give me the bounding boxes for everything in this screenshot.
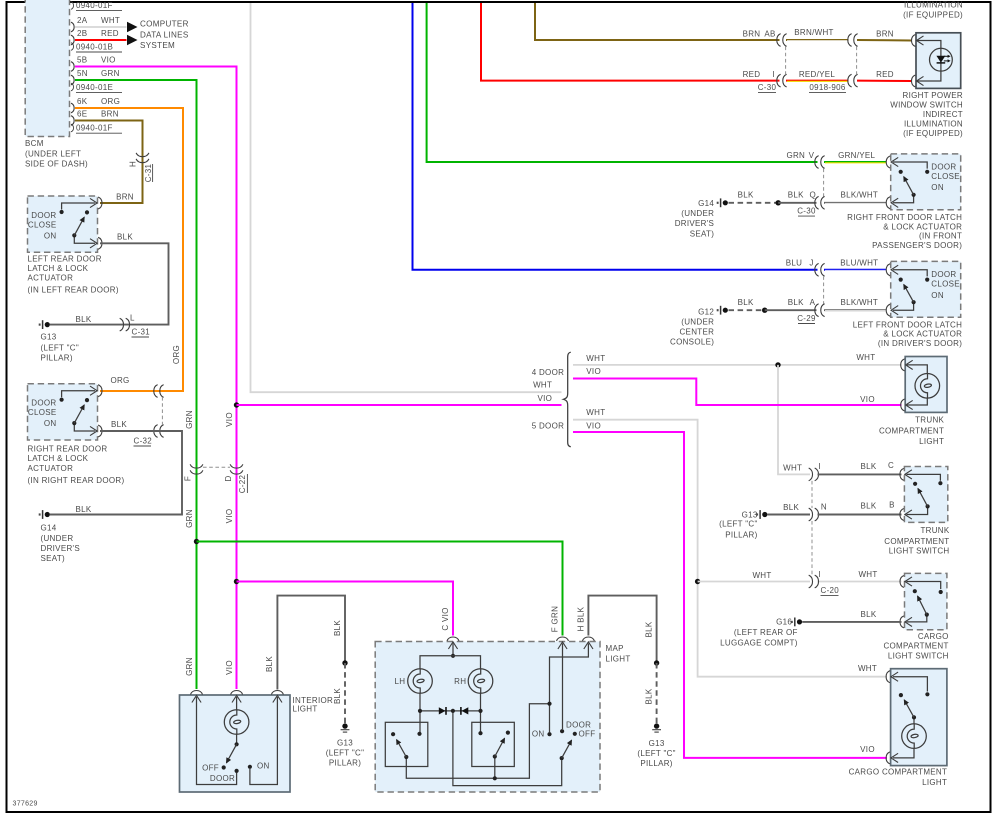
connector I on trunk switch WHT: [809, 462, 821, 481]
connector N on trunk switch BLK: [809, 508, 819, 521]
svg-text:BRN: BRN: [116, 192, 134, 201]
svg-text:ORG: ORG: [101, 97, 120, 106]
svg-text:DOOR: DOOR: [566, 721, 591, 730]
svg-text:DOOR: DOOR: [31, 211, 56, 220]
wire GRN branch to map light: [197, 542, 563, 636]
label trunk compartment light switch: [884, 526, 950, 555]
label G13 trunk: [719, 510, 758, 539]
power window switch box: [916, 33, 961, 89]
BCM pin 6K: [71, 97, 120, 113]
ground G14 front: [717, 198, 728, 207]
label illumination if equipped top: [903, 0, 963, 19]
svg-text:G14: G14: [41, 523, 57, 532]
wire BLK trunk switch: [818, 473, 902, 475]
svg-text:ACTUATOR: ACTUATOR: [28, 274, 74, 283]
brace 4/5 door: [563, 352, 570, 447]
label computer data lines system: [140, 20, 189, 51]
svg-text:V: V: [809, 151, 815, 160]
svg-text:DRIVER'S: DRIVER'S: [675, 219, 715, 228]
svg-text:PILLAR): PILLAR): [725, 531, 757, 540]
interior light bulb: [224, 710, 249, 735]
cargo switch arm: [918, 596, 927, 614]
svg-text:(LEFT "C": (LEFT "C": [637, 749, 675, 758]
svg-text:D: D: [224, 475, 233, 481]
svg-text:COMPARTMENT: COMPARTMENT: [883, 642, 948, 651]
svg-text:BLK: BLK: [788, 191, 804, 200]
left front door latch box: [891, 261, 961, 317]
svg-text:C-31: C-31: [132, 327, 151, 336]
svg-text:J: J: [809, 258, 813, 267]
LED cathode bar: [937, 62, 946, 64]
pin ORG right rear actuator: [90, 385, 102, 397]
label C-29: [797, 314, 816, 324]
svg-text:COMPARTMENT: COMPARTMENT: [884, 537, 949, 546]
connector dashed link trunk: [811, 481, 813, 575]
svg-text:RED: RED: [876, 70, 894, 79]
svg-text:GRN: GRN: [185, 657, 194, 676]
wire diode center to OFF pivot: [453, 713, 562, 786]
left rear switch pivot: [72, 233, 76, 237]
svg-text:DOOR: DOOR: [31, 399, 56, 408]
wire BLK dashed from G14 front: [729, 202, 779, 204]
svg-text:377629: 377629: [13, 801, 38, 808]
svg-text:0940-01B: 0940-01B: [76, 42, 113, 51]
ground G16: [791, 618, 802, 627]
wire BLK dashed to G13: [344, 663, 346, 724]
svg-text:CARGO: CARGO: [918, 632, 949, 641]
svg-text:LIGHT: LIGHT: [919, 437, 944, 446]
svg-text:DRIVER'S: DRIVER'S: [41, 544, 81, 553]
junction BLK interior G13: [342, 660, 347, 665]
svg-text:C-31: C-31: [144, 163, 153, 182]
BCM pin 2B: [71, 29, 119, 45]
junction BLK G14 front: [776, 200, 781, 205]
wire BLK left rear actuator to G13: [50, 243, 169, 324]
svg-text:ILLUMINATION: ILLUMINATION: [904, 120, 963, 129]
pin WHT cargo light: [886, 671, 898, 683]
right front door contact: [925, 170, 929, 174]
BCM pin 6E: [71, 110, 119, 126]
pin B trunk switch: [900, 509, 912, 521]
cargo light internal wiring: [893, 677, 927, 758]
wire BRN/WHT segment: [786, 39, 849, 41]
right front door latch box: [891, 154, 961, 210]
left rear switch arm contact: [85, 210, 89, 214]
svg-text:BLK: BLK: [645, 621, 654, 637]
svg-text:C: C: [888, 461, 894, 470]
junction BLK map G13: [654, 660, 659, 665]
interior switch arm to OFF: [227, 744, 237, 762]
svg-text:(IF EQUIPPED): (IF EQUIPPED): [903, 10, 963, 19]
svg-text:0940-01F: 0940-01F: [76, 124, 113, 133]
label GRN V: [786, 151, 814, 160]
svg-text:(UNDER: (UNDER: [681, 318, 714, 327]
connector C-30 dashed link: [823, 169, 825, 197]
RH switch box: [472, 722, 515, 766]
LH switch box: [385, 722, 428, 766]
svg-text:2A: 2A: [77, 16, 88, 25]
pin WHT trunk light: [901, 359, 913, 371]
svg-text:BLK: BLK: [645, 688, 654, 704]
svg-text:SYSTEM: SYSTEM: [140, 41, 175, 50]
wire BLK to C-30: [778, 202, 816, 204]
right rear switch door contact: [60, 398, 64, 402]
svg-text:WHT: WHT: [752, 571, 771, 580]
label BLU J: [786, 258, 814, 267]
pin BLK interior light: [271, 691, 283, 703]
svg-text:G12: G12: [698, 308, 714, 317]
RH dot diode row: [478, 709, 482, 713]
svg-text:& LOCK ACTUATOR: & LOCK ACTUATOR: [883, 330, 962, 339]
label right power window switch: [890, 91, 963, 138]
map light box: [375, 642, 600, 793]
top wire RED from top edge to power window switch: [481, 3, 780, 81]
trunk compartment light box: [905, 357, 947, 413]
wire BLK G12 to C-29: [765, 309, 817, 311]
pin GRN interior light: [191, 691, 203, 703]
svg-text:LIGHT SWITCH: LIGHT SWITCH: [888, 651, 949, 660]
diode left: [439, 707, 446, 715]
svg-text:VIO: VIO: [860, 745, 875, 754]
svg-text:DOOR: DOOR: [931, 162, 956, 171]
left rear switch door contact: [60, 210, 64, 214]
pin VIO cargo light: [886, 752, 898, 764]
svg-text:ON: ON: [44, 232, 57, 241]
map DOOR contact: [560, 729, 564, 733]
wire WHT branch to C-20: [698, 581, 810, 583]
pin BRN left rear actuator: [90, 197, 102, 209]
svg-text:(IF EQUIPPED): (IF EQUIPPED): [903, 129, 963, 138]
svg-text:G13: G13: [41, 333, 57, 342]
svg-text:WHT: WHT: [101, 16, 120, 25]
label BLK A: [788, 298, 816, 307]
LH switch arm: [397, 740, 407, 757]
svg-text:VIO: VIO: [225, 660, 234, 675]
trunk switch internal wiring: [907, 474, 941, 514]
svg-text:TRUNK: TRUNK: [915, 416, 944, 425]
left front pivot: [912, 300, 916, 304]
cargo switch internal wiring: [907, 582, 941, 622]
pin H BLK map light: [582, 637, 594, 649]
svg-text:BLK/WHT: BLK/WHT: [840, 191, 878, 200]
right rear door latch box: [28, 384, 98, 440]
svg-text:VIO: VIO: [586, 367, 601, 376]
wire BLK dashed to G13 map: [656, 663, 658, 724]
svg-text:BLK: BLK: [860, 462, 876, 471]
svg-text:CONSOLE): CONSOLE): [670, 338, 714, 347]
pin BLK left rear actuator: [90, 237, 102, 249]
junction VIO at map light branch: [234, 579, 239, 584]
svg-text:LH: LH: [394, 677, 405, 686]
RH switch left contact: [478, 731, 482, 735]
LH switch left contact: [391, 732, 395, 736]
svg-text:BLK: BLK: [75, 505, 91, 514]
svg-text:C-30: C-30: [797, 207, 816, 216]
label BRN AB: [743, 30, 776, 39]
diode row wire: [420, 710, 481, 712]
junction GRN at map light branch: [194, 539, 199, 544]
connector C-30a on RED: [777, 74, 787, 87]
left front switch internal wiring: [893, 270, 927, 310]
map bulb rail: [420, 656, 481, 669]
top wire GRN from top edge to right front door: [427, 3, 818, 162]
left rear switch arm: [74, 217, 84, 235]
wire WHT 2A to computer data lines: [75, 26, 127, 28]
label right rear door latch: [28, 445, 125, 485]
LED arrows: [944, 55, 951, 63]
left front switch arm: [904, 285, 914, 303]
svg-text:LATCH & LOCK: LATCH & LOCK: [28, 264, 89, 273]
cargo switch pivot: [925, 613, 929, 617]
connector I C-20: [809, 570, 821, 588]
label C-30 right: [797, 207, 816, 217]
svg-text:GRN: GRN: [101, 69, 120, 78]
ground G13 left: [39, 320, 50, 329]
ground G14 left: [39, 510, 50, 519]
pin BRN power window switch: [912, 35, 924, 47]
wire RED to power window switch: [857, 80, 912, 82]
map OFF pivot: [560, 756, 564, 760]
wire BLK map light to G13: [588, 596, 656, 663]
svg-text:GRN: GRN: [185, 410, 194, 429]
label G13 interior: [326, 738, 364, 767]
junction WHT cargo switch branch: [695, 579, 700, 584]
LH bulb: [408, 669, 433, 694]
wire VIO branch to map light: [237, 582, 454, 636]
svg-text:I: I: [772, 70, 775, 79]
svg-text:(LEFT "C": (LEFT "C": [326, 748, 364, 757]
svg-text:BLK: BLK: [783, 503, 799, 512]
pin BLK cargo switch: [900, 616, 912, 628]
svg-text:(LEFT REAR OF: (LEFT REAR OF: [734, 628, 798, 637]
svg-text:PILLAR): PILLAR): [329, 758, 361, 767]
svg-text:C-22: C-22: [238, 474, 247, 493]
svg-text:(IN FRONT: (IN FRONT: [919, 232, 962, 241]
left front door contact: [925, 278, 929, 282]
wire RH pivot to rail: [494, 759, 496, 779]
pin C VIO map light: [447, 637, 459, 649]
pin VIO interior light: [231, 691, 243, 703]
cargo light pivot: [912, 715, 916, 719]
trunk light bulb: [915, 374, 940, 399]
LH dot diode row: [418, 709, 422, 713]
svg-text:LIGHT: LIGHT: [293, 705, 318, 714]
right rear switch pivot: [72, 421, 76, 425]
labels door close on left front: [931, 270, 960, 300]
labels door close on (left rear): [28, 211, 57, 241]
interior internal BLK wire: [250, 697, 278, 785]
connector C-30a dashed link: [785, 47, 787, 75]
svg-text:ACTUATOR: ACTUATOR: [28, 464, 74, 473]
svg-text:G14: G14: [698, 199, 714, 208]
svg-text:DOOR: DOOR: [210, 774, 235, 783]
map OFF contact: [573, 732, 577, 736]
svg-text:MAP: MAP: [606, 644, 624, 653]
label cargo compartment light switch: [883, 632, 948, 661]
svg-text:CARGO COMPARTMENT: CARGO COMPARTMENT: [849, 768, 948, 777]
label G13 map: [637, 739, 675, 768]
pin BLK right rear actuator: [90, 425, 102, 437]
svg-text:GRN/YEL: GRN/YEL: [838, 151, 875, 160]
right front pivot: [912, 193, 916, 197]
svg-text:(UNDER: (UNDER: [681, 209, 714, 218]
svg-text:ON: ON: [257, 761, 270, 770]
svg-text:G16: G16: [776, 618, 792, 627]
LH bulb to diode row: [419, 693, 421, 733]
RH switch arm: [495, 738, 505, 756]
label trunk compartment light: [879, 416, 945, 446]
wire BLK right rear actuator to G14: [50, 431, 182, 515]
svg-text:GRN: GRN: [185, 509, 194, 528]
BCM connector label 0940-01B: [71, 42, 122, 52]
label G14 left: [41, 523, 81, 563]
label G14 front: [675, 199, 715, 239]
svg-text:G13: G13: [337, 738, 353, 747]
wire BLK G13 trunk: [768, 514, 811, 516]
svg-text:F: F: [184, 476, 193, 481]
svg-text:WHT: WHT: [858, 664, 877, 673]
svg-text:CLOSE: CLOSE: [28, 220, 57, 229]
svg-text:(LEFT "C": (LEFT "C": [41, 344, 79, 353]
svg-text:RH: RH: [454, 677, 466, 686]
cargo light left contact: [899, 693, 903, 697]
label C-22 vertical: [238, 474, 247, 493]
connector L C-31 on BLK: [120, 313, 151, 337]
svg-text:BLK/WHT: BLK/WHT: [840, 298, 878, 307]
svg-text:(IN DRIVER'S DOOR): (IN DRIVER'S DOOR): [878, 339, 962, 348]
ground G13 interior: [341, 723, 350, 732]
svg-text:BLU/WHT: BLU/WHT: [840, 258, 878, 267]
svg-text:0940-01E: 0940-01E: [76, 83, 113, 92]
pin GRN/YEL right front: [886, 156, 898, 168]
labels door close on (right rear): [28, 399, 57, 429]
svg-text:LIGHT: LIGHT: [606, 655, 631, 664]
pin RED power window switch: [912, 75, 924, 87]
wire WHT C-20 to cargo switch: [818, 581, 902, 583]
svg-text:BLU: BLU: [786, 258, 802, 267]
svg-text:INDIRECT: INDIRECT: [923, 110, 963, 119]
interior light box: [180, 695, 291, 792]
wire WHT 5 door to cargo light: [573, 420, 887, 677]
power window switch internal wiring: [917, 41, 941, 82]
svg-text:INTERIOR: INTERIOR: [293, 696, 334, 705]
pin BLK/WHT left front: [886, 304, 898, 316]
svg-text:5N: 5N: [77, 69, 88, 78]
connector C-32 dashed link: [161, 397, 163, 425]
LED triangle: [936, 56, 945, 63]
labels door close on right front: [931, 162, 960, 192]
BCM module box (under left side of dash): [25, 0, 69, 137]
svg-text:CLOSE: CLOSE: [931, 280, 960, 289]
svg-text:BLK: BLK: [788, 298, 804, 307]
wire WHT 4 door to trunk light: [573, 364, 902, 366]
wire RED 2B to computer data lines: [75, 39, 127, 41]
svg-text:RIGHT REAR DOOR: RIGHT REAR DOOR: [28, 445, 108, 454]
svg-text:G13: G13: [742, 510, 758, 519]
svg-text:6K: 6K: [77, 97, 88, 106]
wire RED/YEL segment: [786, 80, 849, 83]
connector C-30 on GRN: [815, 156, 825, 169]
svg-text:(LEFT "C": (LEFT "C": [719, 520, 757, 529]
svg-text:BLK: BLK: [265, 656, 274, 672]
right rear switch arm contact: [85, 398, 89, 402]
arrow computer data lines upper: [127, 22, 138, 33]
svg-text:BRN: BRN: [743, 30, 761, 39]
svg-text:BLK: BLK: [111, 420, 127, 429]
trunk compartment light switch box: [904, 467, 947, 523]
junction WHT trunk branch: [775, 362, 780, 367]
trunk switch right contact: [938, 481, 942, 485]
svg-text:(IN LEFT REAR DOOR): (IN LEFT REAR DOOR): [28, 286, 119, 295]
svg-text:ON: ON: [931, 291, 944, 300]
svg-text:BLK: BLK: [860, 610, 876, 619]
ground G12: [717, 306, 728, 315]
svg-text:WHT: WHT: [856, 353, 875, 362]
svg-text:(IN RIGHT REAR DOOR): (IN RIGHT REAR DOOR): [28, 476, 125, 485]
label 0918-906: [809, 83, 846, 93]
pin WHT cargo switch: [900, 576, 912, 588]
pin F GRN map light: [557, 637, 569, 649]
svg-text:I: I: [819, 570, 822, 579]
svg-text:PILLAR): PILLAR): [41, 353, 73, 362]
wire BLK/WHT to right front door: [824, 202, 887, 204]
svg-text:DATA LINES: DATA LINES: [140, 30, 189, 39]
svg-text:WHT: WHT: [858, 570, 877, 579]
map internal C VIO to rail: [452, 644, 454, 656]
label BLK B: [860, 500, 894, 510]
wire VIO 4 door to trunk light: [573, 379, 902, 406]
map ON contact: [547, 732, 551, 736]
svg-text:CLOSE: CLOSE: [28, 408, 57, 417]
svg-text:0940-01F: 0940-01F: [76, 1, 113, 10]
label G12: [670, 308, 714, 347]
BCM pin 2A: [71, 16, 120, 32]
RH bulb: [468, 669, 493, 694]
svg-text:VIO: VIO: [860, 395, 875, 404]
svg-text:0918-906: 0918-906: [809, 83, 845, 92]
pin BLK/WHT right front: [886, 197, 898, 209]
svg-text:5 DOOR: 5 DOOR: [532, 422, 564, 431]
junction diode center: [451, 709, 455, 713]
svg-text:H: H: [129, 161, 138, 167]
cargo switch right contact: [939, 590, 943, 594]
wire BLU/WHT to left front door: [824, 269, 887, 271]
interior OFF contact: [222, 765, 226, 769]
svg-text:WINDOW SWITCH: WINDOW SWITCH: [890, 101, 963, 110]
label right front door latch: [847, 213, 962, 250]
trunk light internal wiring: [907, 365, 927, 405]
label BLK Q: [788, 191, 816, 200]
wire WHT mid vertical to door brace: [251, 3, 562, 392]
svg-text:RIGHT POWER: RIGHT POWER: [903, 91, 964, 100]
svg-text:RED: RED: [743, 70, 761, 79]
svg-text:GRN: GRN: [786, 151, 805, 160]
connector 0918-906 on RED: [848, 74, 858, 87]
interior DOOR contact: [235, 769, 239, 773]
svg-text:VIO: VIO: [101, 56, 116, 65]
interior internal wire bulb to pivot: [236, 734, 238, 744]
right front switch arm: [904, 177, 914, 195]
connector 0918-906 dashed link: [856, 47, 858, 75]
svg-text:TRUNK: TRUNK: [920, 526, 949, 535]
svg-text:AB: AB: [764, 30, 775, 39]
left front arm contact: [899, 278, 903, 282]
connector C-22 on VIO: [230, 464, 243, 474]
connector C-30 on BLK: [815, 196, 825, 209]
svg-text:BRN: BRN: [101, 110, 119, 119]
svg-text:BLK: BLK: [738, 298, 754, 307]
RH bulb to diode row: [480, 693, 482, 733]
